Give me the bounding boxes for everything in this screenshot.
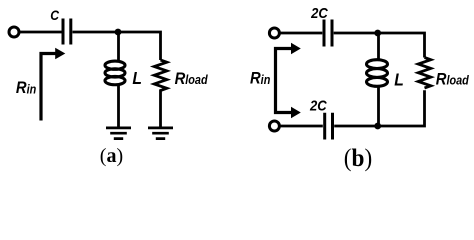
svg-text:Rload: Rload [175,70,209,88]
svg-text:L: L [132,68,142,88]
svg-text:2C: 2C [309,97,327,114]
svg-text:C: C [50,7,59,23]
svg-text:(a): (a) [100,145,123,167]
svg-text:Rload: Rload [436,71,470,89]
svg-text:L: L [394,69,404,89]
svg-text:Rin: Rin [16,79,36,97]
svg-text:Rin: Rin [250,70,270,88]
svg-text:(b): (b) [344,144,372,172]
svg-text:2C: 2C [310,4,328,21]
